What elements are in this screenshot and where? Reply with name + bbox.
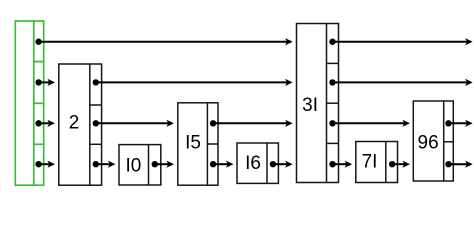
- pointer dot head L4: [35, 161, 41, 167]
- svg-text:96: 96: [418, 132, 439, 153]
- pointer dot 31 L2: [329, 79, 335, 85]
- svg-text:I6: I6: [245, 153, 261, 174]
- pointer dot 31 L4: [329, 161, 335, 167]
- wire 31 L3 to 96: [333, 120, 411, 127]
- node 16 box: [237, 143, 278, 183]
- wire 16 L4 to 31: [273, 161, 293, 168]
- pointer dot 96 L3: [445, 120, 451, 126]
- wire 31 L4 to 71: [333, 161, 353, 168]
- node 2 box: [59, 64, 102, 185]
- wire head L2 to 2: [39, 79, 55, 86]
- wire 71 L4 to 96: [392, 161, 410, 168]
- wire 31 L2 to edge: [333, 79, 473, 86]
- pointer dot 96 L4: [445, 161, 451, 167]
- pointer dot 16 L4: [270, 161, 276, 167]
- wire head L3 to 2: [39, 120, 55, 127]
- pointer dot head L1: [35, 39, 41, 45]
- pointer dot 31 L3: [329, 120, 335, 126]
- wire 31 L1 to edge: [333, 38, 473, 45]
- wire 2 L3 to 15: [96, 120, 174, 127]
- pointer dot 15 L4: [210, 161, 216, 167]
- pointer dot head L3: [35, 120, 41, 126]
- node head (4 levels) box: [15, 21, 43, 185]
- node 96 box: [413, 101, 453, 181]
- node 31 box: [297, 24, 339, 183]
- pointer dot head L2: [35, 79, 41, 85]
- node 71 box: [356, 142, 398, 183]
- svg-text:7I: 7I: [362, 152, 378, 173]
- pointer dot 31 L1: [329, 39, 335, 45]
- pointer dot 2 L2: [93, 79, 99, 85]
- svg-text:3I: 3I: [302, 95, 318, 116]
- pointer dot 71 L4: [389, 161, 395, 167]
- wire 96 L4 to edge: [449, 161, 473, 168]
- svg-text:2: 2: [69, 112, 80, 133]
- node 10 box: [119, 145, 161, 185]
- pointer dot 2 L3: [93, 120, 99, 126]
- wire 2 L4 to 10: [96, 161, 116, 168]
- pointer dot 15 L3: [210, 120, 216, 126]
- wire 2 L2 to 31: [96, 79, 293, 86]
- pointer dot 2 L4: [93, 161, 99, 167]
- svg-text:I0: I0: [125, 156, 141, 177]
- svg-text:I5: I5: [185, 132, 201, 153]
- wire 96 L3 to edge: [449, 120, 473, 127]
- pointer dot 10 L4: [152, 161, 158, 167]
- wire head L1 to 31: [39, 38, 293, 45]
- wire 15 L3 to 31: [213, 120, 293, 127]
- wire 10 L4 to 15: [155, 161, 174, 168]
- wire head L4 to 2: [39, 161, 55, 168]
- wire 15 L4 to 16: [213, 161, 233, 168]
- node 15 box: [178, 103, 218, 185]
